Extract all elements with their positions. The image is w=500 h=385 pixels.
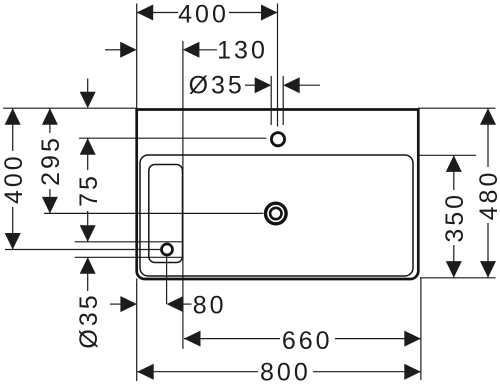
- extension line: basin left edge above basin: [136, 4, 138, 109]
- extension line: drain centre horizontal: [44, 212, 263, 214]
- arrow 400 top right: [261, 5, 278, 21]
- svg-text:295: 295: [37, 135, 65, 186]
- extension line: faucet hole centre horizontal: [79, 137, 266, 139]
- arrow 350 bottom: [446, 261, 462, 278]
- arrow 660 right: [404, 331, 421, 347]
- arrow O35 top right pointing left: [283, 77, 300, 93]
- svg-text:130: 130: [217, 37, 268, 65]
- extension line: basin right edge below basin: [420, 278, 422, 380]
- arrow 295 bottom: [42, 197, 58, 214]
- dimension 660 line: [184, 338, 421, 340]
- svg-text:75: 75: [75, 173, 103, 207]
- extension line: small hole bottom edge: [75, 256, 183, 258]
- dimension 80 right leader line: [182, 303, 192, 305]
- faucet hole circle: [271, 133, 284, 146]
- extension line: bowl top edge to right: [418, 154, 476, 156]
- svg-text:Ø35: Ø35: [189, 72, 245, 100]
- arrow 800 left: [137, 364, 154, 380]
- extension line: small hole top edge: [75, 241, 183, 243]
- extension line: small hole centre horizontal: [5, 249, 161, 251]
- text background 660: [280, 329, 335, 350]
- dimension 400 top line: [137, 12, 278, 14]
- dimension 75 line down to O35 arrow: [87, 138, 89, 242]
- extension line: basin left edge below basin: [136, 279, 138, 382]
- dimension 350 right line: [453, 155, 455, 277]
- svg-text:400: 400: [0, 153, 28, 204]
- dimension O35 left line below hole: [87, 257, 89, 347]
- extension line: basin top edge to right margin: [418, 107, 496, 109]
- arrow 400 top left: [137, 5, 154, 21]
- arrow O35 left bottom pointing up: [80, 257, 96, 274]
- text background 400: [3, 151, 23, 207]
- text background 295: [40, 133, 60, 189]
- svg-text:Ø35: Ø35: [75, 292, 103, 348]
- extension line: faucet hole centre vertical: [277, 4, 279, 127]
- arrow O35 top left pointing right: [255, 77, 272, 93]
- extension line: small hole centre vertical below: [166, 256, 168, 304]
- arrow 130 right outside pointing left: [183, 42, 200, 58]
- extension line: shelf right edge full vertical: [182, 41, 184, 349]
- dimension 800 line: [137, 371, 421, 373]
- extension line: basin top edge to left margin: [3, 107, 137, 109]
- arrow 400 left bottom: [5, 233, 21, 250]
- dimension 480 right line: [487, 108, 489, 277]
- text background 80: [192, 294, 228, 315]
- text background 400: [178, 3, 229, 24]
- text background 800: [258, 361, 313, 382]
- outer basin outline: [137, 110, 419, 280]
- arrow 350 top: [446, 155, 462, 172]
- svg-text:350: 350: [441, 192, 469, 243]
- arrow 400 left top: [5, 108, 21, 125]
- drain outer circle: [266, 203, 287, 224]
- arrow O35 left top pointing down: [80, 225, 96, 242]
- dimension 80 left outside tail: [110, 303, 122, 305]
- arrow 480 top: [480, 108, 496, 125]
- dimension O35 top right outside tail: [299, 84, 320, 86]
- arrow 480 bottom: [480, 261, 496, 278]
- left shelf rectangle: [149, 165, 183, 263]
- arrow 800 right: [404, 364, 421, 380]
- svg-text:480: 480: [475, 170, 500, 221]
- drain inner circle: [270, 208, 281, 219]
- svg-text:800: 800: [260, 359, 311, 385]
- extension line: basin bottom edge to right margin: [420, 277, 496, 279]
- text background 350: [444, 190, 464, 245]
- extension line: faucet hole left edge: [270, 76, 272, 125]
- text background 75: [78, 170, 98, 211]
- arrow 75 top outside pointing down: [80, 92, 96, 109]
- arrow 80 left outside pointing right: [120, 296, 136, 312]
- extension line: faucet hole right edge: [282, 76, 284, 125]
- arrow 130 left outside pointing right: [120, 42, 137, 58]
- text background Ø35: [77, 291, 99, 350]
- dimension 130 left outside tail: [105, 49, 121, 51]
- text background Ø35: [190, 73, 245, 96]
- dimension 75 upper outside tail: [87, 79, 89, 93]
- dimension 295 left line: [49, 108, 51, 213]
- arrow 660 left: [184, 331, 201, 347]
- text background 480: [478, 167, 498, 223]
- svg-text:400: 400: [178, 0, 229, 28]
- dimension O35 top left leader line: [243, 84, 256, 86]
- arrow 295 top: [42, 108, 58, 125]
- small hole circle: [162, 244, 173, 255]
- dimension 130 right leader line: [199, 49, 219, 51]
- dimension 400 left line: [12, 108, 14, 249]
- arrow 80 right outside pointing left: [167, 296, 184, 312]
- arrow 75 bottom outside pointing up: [80, 138, 96, 155]
- text background 130: [217, 40, 269, 60]
- svg-text:660: 660: [282, 327, 333, 355]
- inner bowl outline: [140, 155, 413, 276]
- svg-text:80: 80: [193, 292, 227, 320]
